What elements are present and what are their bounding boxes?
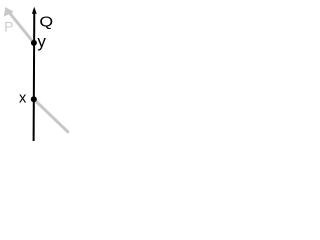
svg-text:Q: Q [39,13,53,30]
wire: gray line P arrowhead (points up-left) [4,7,14,17]
node x: dot [31,96,37,102]
svg-text:P: P [4,18,13,34]
node y: dot [31,40,37,46]
wire: black line Q [33,10,36,141]
svg-text:x: x [19,91,27,107]
wire: gray line P upper segment [10,13,34,43]
wire: gray line P lower segment [34,99,68,132]
wire: black line Q arrowhead (points up) [32,7,37,14]
svg-text:y: y [37,32,46,51]
